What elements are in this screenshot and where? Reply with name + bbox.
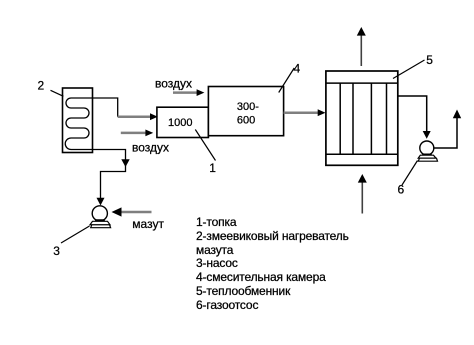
svg-text:600: 600 (237, 115, 255, 127)
air arrow up into heat exchanger bottom (361, 181, 363, 214)
coil heater U2 serpentine coil (65, 98, 93, 150)
furnace box 1 (157, 107, 209, 137)
gas arrow mixing chamber to heat exchanger (284, 111, 318, 114)
svg-text:воздух: воздух (155, 77, 192, 91)
svg-text:мазут: мазут (132, 217, 164, 231)
heat exchanger HX5 tube 4 (386, 83, 388, 154)
heat exchanger HX5 bottom header line (326, 153, 398, 155)
pump P6 base (422, 154, 433, 157)
legend text block (196, 216, 349, 313)
leader line for label 5 (393, 60, 425, 79)
arrowhead into pump P6 (423, 131, 431, 139)
svg-text:4: 4 (294, 62, 301, 76)
heat exchanger HX5 tube 1 (339, 83, 341, 154)
leader line for label 4 (279, 68, 295, 93)
svg-text:5: 5 (426, 53, 433, 67)
wire pump P6 outlet up (434, 117, 457, 148)
pump P6 circle (420, 141, 434, 155)
heat exchanger HX5 top header line (326, 82, 398, 84)
flow arrowhead down on wire to pump P3 (121, 159, 129, 167)
arrowhead up on pump P6 outlet (453, 110, 461, 119)
svg-text:300-: 300- (237, 101, 259, 113)
leader line for label 2 (51, 90, 64, 96)
wire coil-bottom to pump P3 (93, 150, 126, 202)
wire heat exchanger to pump P6 (398, 96, 427, 131)
pump P3 base (95, 219, 106, 222)
svg-text:воздух: воздух (132, 141, 169, 155)
air arrow top into mixing chamber (173, 91, 197, 94)
pump P3 circle (92, 206, 107, 221)
leader line for label 3 (61, 226, 90, 243)
fuel oil arrow into pump P3 (121, 211, 152, 214)
svg-text:3: 3 (53, 244, 60, 258)
air arrow into furnace (from coil wire) (118, 115, 151, 118)
wire coil-top to furnace (93, 98, 118, 117)
heat exchanger HX5 tube 2 (352, 83, 354, 154)
svg-text:1000: 1000 (168, 117, 192, 129)
leader line for label 1 (195, 130, 215, 161)
leader line for label 6 (402, 161, 418, 186)
svg-text:1: 1 (209, 161, 216, 175)
heat exchanger HX5 tube 3 (370, 83, 372, 154)
heat exchanger HX5 outer shell (326, 71, 398, 165)
mixing chamber box 4 (208, 87, 283, 136)
air arrow lower-left into furnace (121, 132, 146, 135)
coil heater U2 body (63, 88, 93, 153)
exhaust arrow up from heat exchanger top (360, 34, 362, 66)
svg-text:6: 6 (398, 183, 405, 197)
arrowhead into pump P3 (97, 198, 105, 206)
svg-text:2: 2 (38, 79, 45, 93)
